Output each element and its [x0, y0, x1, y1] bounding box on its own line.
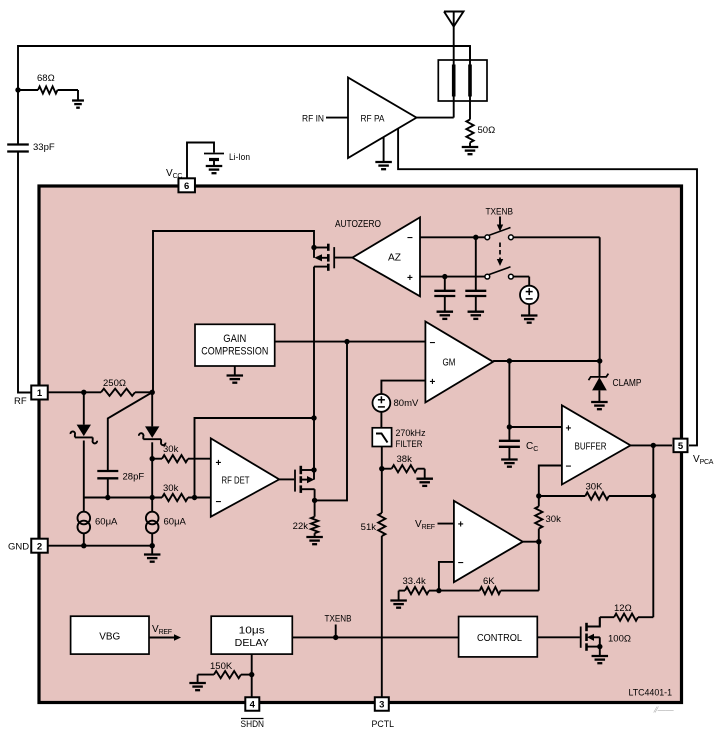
pin 3 PCTL: [375, 697, 389, 711]
label 60uA left: [95, 517, 118, 528]
svg-text:⁄⁄――: ⁄⁄――: [653, 706, 674, 715]
ground at 33.4k: [390, 591, 407, 608]
ground at gain compression: [227, 366, 244, 383]
svg-text:PCTL: PCTL: [372, 719, 395, 730]
resistor 30k upper: [152, 455, 211, 462]
label RF: [14, 396, 27, 407]
wire: 6K to error amp output: [538, 542, 540, 591]
node: 38k junction: [379, 466, 384, 471]
diode D1 schottky: [70, 392, 97, 497]
label 30k lower: [163, 483, 179, 494]
svg-text:33pF: 33pF: [33, 142, 55, 153]
node: error amp- junction: [436, 588, 441, 593]
node: junction at 68ohm tap: [15, 87, 20, 92]
svg-text:LTC4401-1: LTC4401-1: [629, 688, 673, 699]
svg-text:Li-Ion: Li-Ion: [229, 152, 250, 163]
svg-text:+: +: [566, 424, 572, 435]
label 38k: [397, 454, 413, 465]
voltage source at S2: [520, 286, 538, 304]
svg-text:+: +: [216, 458, 222, 469]
label TXENB top: [486, 207, 514, 218]
diode D2 schottky: [139, 392, 166, 497]
label CLAMP: [613, 378, 642, 389]
resistor 33.4k: [399, 587, 439, 594]
svg-text:100Ω: 100Ω: [608, 634, 631, 645]
resistor 6K: [439, 587, 539, 594]
wire: pin 6 Vcc to battery: [187, 143, 214, 180]
block 10us DELAY: [211, 616, 292, 654]
label 33.4k: [403, 576, 426, 587]
svg-text:SHDN: SHDN: [241, 719, 265, 730]
ground at output FET: [592, 647, 609, 664]
node: AZ- cap junction: [473, 235, 478, 240]
node: feedback riser junction: [192, 495, 197, 500]
wire: V_PCA feedback from RF PA to pin 5: [398, 128, 697, 445]
op-amp error amp: [454, 501, 523, 582]
svg-text:TXENB: TXENB: [325, 614, 352, 625]
resistor 250ohm: [101, 389, 150, 396]
svg-text:AUTOZERO: AUTOZERO: [335, 219, 381, 230]
resistor 51k: [378, 513, 385, 536]
wire: Cc branch to buffer+: [509, 361, 562, 427]
label 12ohm: [614, 603, 632, 614]
svg-text:BUFFER: BUFFER: [575, 442, 607, 453]
label VREF arrow: [152, 624, 172, 636]
svg-text:−: −: [216, 497, 222, 508]
svg-text:DELAY: DELAY: [235, 637, 269, 649]
resistor 30K feedback: [539, 492, 654, 499]
wire: S2 to offset source: [513, 277, 529, 286]
svg-text:RF PA: RF PA: [361, 114, 386, 125]
resistor 22k: [311, 500, 318, 537]
capacitor at AZ- input: [465, 237, 486, 311]
wire: coupler right output down to 50ohm: [469, 101, 471, 120]
ground at 22k: [306, 537, 323, 544]
label TXENB bottom: [325, 614, 352, 625]
resistor 150K: [198, 671, 252, 683]
label AUTOZERO: [335, 219, 381, 230]
wire: RF PA output to coupler: [417, 117, 454, 119]
node: GM output Cc branch: [507, 358, 512, 363]
svg-text:30k: 30k: [546, 514, 562, 525]
wire: delay output to control: [292, 636, 458, 638]
svg-text:RF DET: RF DET: [222, 476, 250, 487]
ground at AZ- cap: [468, 312, 485, 319]
ground at GND bus: [144, 546, 161, 562]
switch S1 (AZ- line): [485, 228, 513, 240]
wire: filter to PCTL chain: [381, 447, 383, 514]
svg-text:6K: 6K: [483, 576, 495, 587]
capacitor Cc: [499, 427, 520, 460]
node: feedback divider node: [536, 493, 541, 498]
svg-text:TXENB: TXENB: [486, 207, 514, 218]
node: 150K junction: [249, 672, 254, 677]
node: 30K feedback junction: [651, 493, 656, 498]
wire: feedback top rail from coupler to 68ohm/33pF node: [18, 46, 470, 145]
capacitor 33pF: [7, 145, 29, 152]
transistor output MOSFET: [581, 617, 600, 651]
svg-text:50Ω: 50Ω: [478, 125, 496, 136]
svg-text:FILTER: FILTER: [396, 439, 423, 450]
resistor 30k divider: [535, 496, 542, 542]
wire: delay to pin 4: [251, 654, 253, 697]
svg-text:RF: RF: [14, 396, 27, 407]
arrow TXENB to switch: [497, 217, 503, 232]
wire: gain compression output to GM-: [275, 341, 426, 343]
node: clamp node: [597, 358, 602, 363]
pin 4 SHDN: [245, 697, 259, 711]
label 30k upper: [163, 444, 179, 455]
svg-text:30k: 30k: [163, 444, 179, 455]
pin 5 VPCA: [674, 439, 688, 453]
label 30K feedback: [586, 482, 604, 493]
svg-text:RF IN: RF IN: [302, 114, 324, 125]
resistor 30k lower: [162, 494, 211, 501]
svg-text:60μA: 60μA: [164, 517, 187, 528]
wire: left rail from 33pF down to pin 1 RF: [18, 152, 31, 393]
node: 28pF bottom junction: [105, 495, 110, 500]
svg-text:150K: 150K: [210, 661, 233, 672]
wire: buffer- to feedback node: [539, 466, 562, 497]
op-amp RF PA: [348, 78, 417, 159]
svg-text:250Ω: 250Ω: [103, 378, 126, 389]
label LTC4401-1: [629, 688, 673, 699]
node: RF line diode D1 tap: [81, 390, 86, 395]
svg-text:+: +: [458, 520, 464, 531]
svg-text:−: −: [407, 233, 413, 244]
transistor autozero MOSFET: [314, 244, 352, 418]
svg-text:+: +: [430, 377, 436, 388]
wire: RF IN to RF PA: [326, 117, 348, 119]
svg-text:51k: 51k: [361, 522, 377, 533]
op-amp AZ: [352, 217, 420, 296]
switch S2 (AZ+ line): [485, 267, 513, 279]
node: GND bus D1 branch: [81, 543, 86, 548]
ground at clamp: [591, 402, 608, 409]
ground at 50ohm: [462, 143, 479, 155]
node: FET drain node: [311, 415, 316, 420]
wire: GM output to clamp rail: [493, 360, 600, 362]
wire: riser GM- to RF DET source node: [315, 342, 347, 501]
label 22k: [293, 521, 309, 532]
label VPCA: [693, 454, 714, 466]
wire: AZ non-inverting input line: [420, 276, 485, 278]
svg-text:GAIN: GAIN: [223, 333, 246, 345]
node: RF DET FET source dot: [312, 498, 317, 503]
resistor 38k: [382, 465, 425, 479]
label 6K: [483, 576, 495, 587]
wire: buffer output to pin 5: [631, 444, 673, 446]
wire: GM+ to 80mV source: [381, 381, 425, 394]
svg-text:30K: 30K: [586, 482, 604, 493]
node: D2 bottom junction: [150, 495, 155, 500]
wire: 80mV to filter: [380, 412, 382, 428]
op-amp RF DET: [211, 438, 279, 516]
watermark: [653, 706, 674, 715]
label 60uA right: [164, 517, 187, 528]
svg-text:5: 5: [678, 441, 684, 452]
wire: S1 to clamp rail: [513, 237, 599, 360]
svg-text:28pF: 28pF: [123, 472, 145, 483]
wire: VREF to error amp+: [438, 523, 454, 525]
pin 1 RF: [31, 386, 48, 400]
wire: antenna stem through coupler to RF PA output: [453, 60, 455, 118]
block 270kHz filter: [372, 428, 391, 447]
label Vcc: [166, 168, 182, 180]
svg-text:3: 3: [379, 700, 384, 711]
svg-text:GM: GM: [443, 357, 456, 369]
node: GM- riser junction: [344, 339, 349, 344]
wire: error amp output: [523, 541, 539, 543]
ground at offset source: [521, 304, 538, 323]
current source 60uA left: [78, 498, 91, 546]
wire: 28pF bottom stub: [107, 478, 109, 497]
wire: error amp- input: [439, 562, 454, 591]
svg-text:6: 6: [184, 181, 189, 192]
resistor 12ohm: [600, 614, 654, 627]
wire: feedback riser to FET drain node: [195, 418, 315, 498]
node: 250ohm right junction: [150, 390, 155, 395]
svg-text:68Ω: 68Ω: [37, 73, 55, 84]
svg-text:−: −: [430, 338, 436, 349]
svg-text:12Ω: 12Ω: [614, 603, 632, 614]
ground at Cc: [501, 460, 518, 467]
wire: AZ inverting input line: [420, 236, 485, 238]
antenna: [444, 12, 464, 61]
svg-text:60μA: 60μA: [95, 517, 118, 528]
svg-text:10μs: 10μs: [239, 625, 265, 637]
svg-text:VBG: VBG: [99, 632, 120, 643]
block CONTROL: [459, 617, 538, 657]
label Li-Ion: [229, 152, 250, 163]
wire: pin 1 RF input line: [48, 391, 101, 393]
label 51k: [361, 522, 377, 533]
node: buffer+ Cc junction: [507, 424, 512, 429]
ground at 38k: [416, 479, 433, 486]
label 28pF: [123, 472, 145, 483]
node: GND bus D2 branch: [150, 543, 155, 548]
wire: TXENB stub: [335, 625, 337, 638]
current source 60uA right: [146, 498, 159, 546]
ground at RF PA: [375, 137, 392, 169]
svg-text:4: 4: [250, 700, 256, 711]
svg-text:COMPRESSION: COMPRESSION: [201, 346, 268, 358]
label 50ohm: [478, 125, 496, 136]
svg-text:GND: GND: [8, 542, 29, 553]
wire: autozero loop (AZ FET drain to 250ohm node): [153, 231, 314, 392]
label VREF mid: [415, 519, 435, 531]
svg-text:−: −: [458, 558, 464, 569]
capacitor at AZ+ input: [434, 277, 455, 312]
voltage source 80mV: [373, 394, 391, 412]
wire: control to output FET gate: [537, 636, 580, 638]
node: buffer output junction: [651, 443, 656, 448]
label 100ohm: [608, 634, 631, 645]
pin 2 GND: [31, 539, 48, 553]
svg-text:−: −: [566, 462, 572, 473]
svg-text:30k: 30k: [163, 483, 179, 494]
svg-text:22k: 22k: [293, 521, 309, 532]
arrow VREF out of VBG: [149, 634, 181, 640]
label 250ohm: [103, 378, 126, 389]
label SHDN: [241, 719, 265, 731]
wire: detector minus bus: [84, 497, 162, 499]
wire: buffer output rail down to 12ohm: [652, 445, 654, 617]
wire: GND bus from pin 2: [48, 545, 152, 547]
battery Li-Ion: [204, 154, 224, 167]
diode clamp zener: [589, 361, 609, 402]
node: output FET source: [597, 644, 602, 649]
wire: 51k to pin 3 PCTL: [381, 536, 383, 697]
svg-text:80mV: 80mV: [394, 398, 419, 409]
resistor 68ohm: [18, 86, 78, 93]
svg-text:CONTROL: CONTROL: [477, 632, 522, 644]
label 270kHz FILTER: [396, 428, 426, 450]
label Cc: [526, 441, 538, 453]
svg-text:38k: 38k: [397, 454, 413, 465]
ground at battery: [206, 166, 223, 173]
node: D2 to 30k junction: [150, 456, 155, 461]
pin 6 VCC: [178, 178, 195, 192]
IC body LTC4401-1 (shaded block): [39, 186, 682, 703]
block VBG: [71, 616, 149, 654]
svg-text:2: 2: [37, 541, 42, 552]
capacitor 28pF: [97, 471, 118, 478]
block GAIN COMPRESSION: [195, 324, 275, 366]
ground at AZ+ cap: [437, 312, 454, 319]
label 80mV: [394, 398, 419, 409]
op-amp GM: [425, 322, 493, 403]
directional coupler: [438, 60, 487, 101]
ground at 150K: [189, 683, 206, 690]
label GND: [8, 542, 29, 553]
svg-text:1: 1: [37, 388, 43, 399]
wire: tap to 28pF: [108, 392, 152, 471]
label PCTL: [372, 719, 395, 730]
op-amp BUFFER: [562, 405, 631, 484]
ground at 68ohm: [72, 90, 84, 108]
node: RF DET FET drain dot: [311, 467, 316, 472]
resistor 50ohm: [466, 120, 473, 143]
svg-text:CLAMP: CLAMP: [613, 378, 642, 389]
svg-text:+: +: [407, 273, 413, 284]
label 30k divider: [546, 514, 562, 525]
svg-text:AZ: AZ: [388, 252, 402, 264]
svg-text:33.4k: 33.4k: [403, 576, 426, 587]
wire: coupler right bar to top rail: [469, 46, 471, 64]
label 68ohm: [37, 73, 55, 84]
transistor RF DET MOSFET: [279, 418, 314, 500]
label 33pF: [33, 142, 55, 153]
node: TXENB junction: [333, 635, 338, 640]
node: AZ+ cap junction: [442, 274, 447, 279]
label 150K: [210, 661, 233, 672]
node: AZ FET drain junction: [311, 245, 316, 250]
svg-text:270kHz: 270kHz: [396, 428, 426, 439]
node: error amp output junction: [536, 539, 541, 544]
label RF IN: [302, 114, 324, 125]
arrow dashed between switches: [497, 243, 503, 267]
